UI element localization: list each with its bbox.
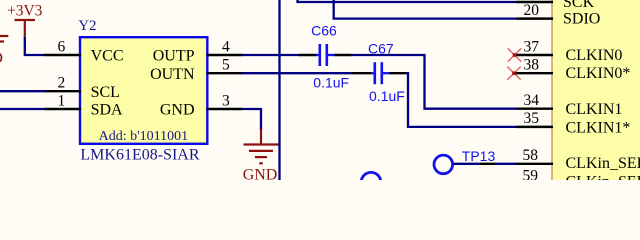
svg-text:2: 2 <box>58 75 66 92</box>
wire OUTN net (C67 to CLKIN1*) <box>406 73 517 127</box>
svg-text:C67: C67 <box>368 40 394 56</box>
svg-text:6: 6 <box>58 38 66 55</box>
svg-text:GND: GND <box>243 166 278 180</box>
svg-text:CLKIN1*: CLKIN1* <box>566 119 631 136</box>
power port +3V3 <box>7 3 43 38</box>
svg-text:SCK: SCK <box>563 0 595 11</box>
pin 37 CLKIN0 <box>515 38 623 64</box>
pin SCK <box>517 0 595 11</box>
svg-text:CLKin_SEL: CLKin_SEL <box>566 173 640 180</box>
svg-text:OUTP: OUTP <box>153 48 195 65</box>
wire to pin 1 <box>0 108 46 110</box>
svg-text:Add: b'1011001: Add: b'1011001 <box>99 129 189 144</box>
pin 38 CLKIN0* <box>515 57 631 82</box>
wire to pin 2 <box>0 90 46 92</box>
svg-text:0.1uF: 0.1uF <box>313 74 349 90</box>
svg-text:GND: GND <box>0 50 3 67</box>
designator Y2 <box>78 18 96 34</box>
svg-text:34: 34 <box>524 92 540 109</box>
wire +3V3 to pin 6 <box>25 37 46 55</box>
connector U? body (right, partial) <box>552 0 640 180</box>
test point TP13 <box>434 148 496 174</box>
wire OUTP net (pin4 to C66) <box>242 54 300 56</box>
svg-text:38: 38 <box>524 57 540 74</box>
svg-text:SCL: SCL <box>91 84 120 101</box>
text Add: b'1011001 <box>99 129 189 144</box>
svg-text:CLKIN0: CLKIN0 <box>566 47 623 64</box>
capacitor C66 <box>299 22 351 90</box>
svg-text:SDIO: SDIO <box>563 11 600 28</box>
svg-text:CLKIN0*: CLKIN0* <box>566 65 631 82</box>
pin 4 OUTP <box>153 38 243 64</box>
svg-text:C66: C66 <box>311 22 337 38</box>
comment LMK61E08-SIAR <box>80 147 199 164</box>
ground <box>243 129 279 184</box>
wire SDIO net <box>334 0 517 19</box>
test point (partial, bottom) <box>361 172 381 192</box>
pin 1 SDA <box>45 92 124 118</box>
svg-text:LMK61E08-SIAR: LMK61E08-SIAR <box>80 147 199 164</box>
oscillator Y2 body <box>80 37 207 144</box>
svg-text:Y2: Y2 <box>78 18 96 34</box>
svg-text:1: 1 <box>58 92 66 109</box>
capacitor C67 <box>352 40 406 104</box>
wire vertical crossing net <box>278 0 280 180</box>
svg-text:0.1uF: 0.1uF <box>369 88 405 104</box>
svg-text:CLKin_SEL: CLKin_SEL <box>566 155 640 172</box>
no-ERC marker pin 38 <box>507 67 521 80</box>
svg-text:3: 3 <box>222 92 230 109</box>
pin 59 CLKin_SEL (partial) <box>523 167 640 190</box>
wire pin3 to GND <box>242 109 261 130</box>
wire OUTN net (pin5 to C67) <box>241 72 353 74</box>
svg-text:20: 20 <box>524 2 540 19</box>
svg-text:GND: GND <box>160 102 195 119</box>
svg-text:37: 37 <box>524 38 540 55</box>
svg-text:4: 4 <box>222 38 230 55</box>
svg-text:58: 58 <box>523 147 539 164</box>
svg-text:TP13: TP13 <box>462 148 496 164</box>
wire OUTP net (C66 to CLKIN1) <box>351 55 517 109</box>
svg-text:35: 35 <box>524 110 540 127</box>
pin 20 SDIO <box>517 2 601 27</box>
wire SCK net <box>298 0 517 2</box>
ground (partial, left edge) <box>0 36 8 67</box>
svg-text:5: 5 <box>222 57 230 74</box>
svg-text:SDA: SDA <box>91 102 123 119</box>
pin 34 CLKIN1 <box>517 92 623 118</box>
svg-text:+3V3: +3V3 <box>7 3 43 20</box>
pin 3 GND <box>160 92 242 118</box>
pin 2 SCL <box>45 75 120 101</box>
pin 6 VCC <box>45 38 124 64</box>
no-ERC marker pin 37 <box>508 48 522 61</box>
wire CLKin_SEL net <box>496 163 518 165</box>
svg-text:VCC: VCC <box>91 48 124 65</box>
pin 58 CLKin_SEL <box>517 147 640 172</box>
svg-text:OUTN: OUTN <box>150 66 195 83</box>
svg-text:CLKIN1: CLKIN1 <box>566 101 623 118</box>
svg-text:59: 59 <box>523 167 539 180</box>
pin 35 CLKIN1* <box>517 110 631 136</box>
pin 5 OUTN <box>150 57 242 83</box>
